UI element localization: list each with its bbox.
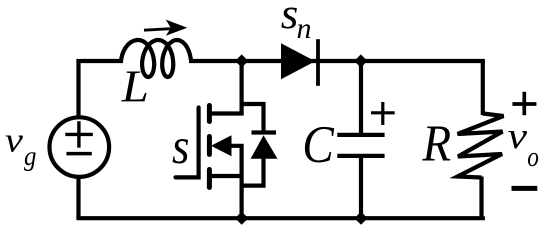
body diode D1 top connection: [242, 104, 264, 133]
wire top rail left segment: [79, 61, 124, 63]
capacitor C1 bottom plate: [337, 154, 384, 158]
inductor current arrowhead: [166, 20, 188, 36]
diode D2 cathode bar: [316, 39, 320, 86]
capacitor C1 bottom stub: [359, 156, 363, 218]
transistor Q1 middle lead wire to drop: [228, 146, 242, 218]
body diode D1 cathode bar: [252, 130, 277, 134]
transistor Q1 gate lead and gate bar: [176, 108, 199, 178]
output plus sign: [512, 92, 536, 115]
source V1 minus sign: [66, 152, 91, 156]
capacitor C1 plus sign: [371, 102, 395, 125]
svg-text:o: o: [527, 141, 539, 173]
node junction bottom-right diamond: [354, 212, 367, 225]
svg-text:C: C: [302, 114, 334, 173]
transistor Q1 source lead: [209, 174, 241, 178]
transistor Q1 channel middle segment: [207, 137, 212, 155]
source V1 circle: [50, 117, 110, 177]
wire left branch upper (rail to source): [76, 61, 80, 118]
svg-text:R: R: [422, 114, 452, 172]
body diode D1 bottom connection: [242, 158, 264, 186]
wire top rail middle segment: [189, 59, 362, 63]
capacitor C1 top stub: [359, 61, 363, 135]
resistor R1 bottom stub: [479, 177, 483, 219]
source V1 plus sign: [65, 121, 93, 148]
inductor current arrow shaft: [144, 29, 173, 31]
capacitor C1 top plate: [337, 133, 384, 137]
output minus sign: [512, 186, 538, 191]
node junction top-right diamond: [354, 54, 367, 67]
node junction top-left diamond: [235, 54, 248, 67]
transistor Q1 arrow on middle lead: [211, 135, 232, 156]
svg-text:L: L: [121, 62, 149, 112]
node junction bottom-left diamond: [235, 212, 248, 225]
wire bottom rail: [79, 216, 483, 218]
svg-text:g: g: [24, 141, 36, 171]
inductor L1 coil: [121, 40, 191, 77]
svg-text:n: n: [297, 12, 312, 45]
diode D2 (sn) triangle: [281, 43, 315, 79]
svg-text:v: v: [5, 121, 23, 160]
transistor Q1 channel top segment: [207, 106, 212, 122]
svg-text:v: v: [508, 115, 527, 156]
transistor Q1 drain lead: [209, 61, 241, 114]
transistor Q1 channel bottom segment: [207, 170, 212, 188]
body diode D1 triangle: [251, 135, 278, 159]
resistor R1 zigzag: [458, 114, 504, 178]
wire top rail right segment: [359, 61, 483, 63]
svg-text:s: s: [172, 118, 189, 174]
resistor R1 top stub: [481, 61, 485, 115]
wire left branch lower (source to rail): [76, 177, 80, 218]
